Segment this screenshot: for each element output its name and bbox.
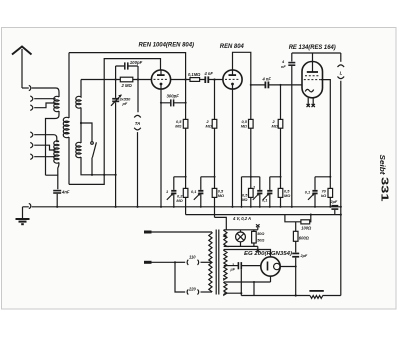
- speaker choke: [309, 291, 323, 299]
- resistor 100 ohm: [285, 215, 311, 224]
- tuning capacitor 3x550pF: [111, 95, 122, 207]
- wire L2 bottom to bracket: [58, 163, 59, 176]
- capacitor 4nF (coupling 1): [205, 76, 208, 83]
- capacitor 1uF: [238, 262, 261, 269]
- antenna terminal connector: [29, 85, 34, 90]
- switch S1: [91, 142, 97, 175]
- svg-text:4 nF: 4 nF: [204, 71, 214, 76]
- antenna: [12, 47, 32, 89]
- resistor 0.5M (group 3 right): [278, 177, 283, 207]
- svg-text:Seibt: Seibt: [378, 155, 387, 175]
- anode row V1: [171, 79, 223, 81]
- svg-text:4nF: 4nF: [61, 190, 70, 195]
- RC group 1: bracket: [174, 177, 186, 190]
- svg-text:REN 804: REN 804: [220, 44, 245, 50]
- svg-text:110: 110: [189, 254, 196, 259]
- top rail (B+ upper): [69, 53, 186, 80]
- capacitor 1nF (group 1): [167, 190, 177, 207]
- junction V2 plate node: [250, 84, 252, 86]
- junction rectifier node: [295, 265, 297, 267]
- resistor 0.5M (V2 load): [249, 85, 254, 177]
- transformer core: [216, 230, 219, 295]
- junction mains: [174, 261, 176, 263]
- RC group 2: bracket: [201, 177, 215, 190]
- wire terminal to coil L1: [34, 88, 59, 97]
- wire TA to ground rail: [137, 132, 139, 207]
- svg-text:EG 200(RGN354): EG 200(RGN354): [244, 251, 292, 257]
- wire tuned circuit bottom: [69, 175, 104, 185]
- svg-text:4 V, 0,2 A: 4 V, 0,2 A: [232, 216, 251, 221]
- dial lamp: [236, 230, 246, 247]
- svg-text:1: 1: [166, 189, 168, 194]
- wire tap A4 to coil L2 top: [34, 135, 59, 142]
- secondary S2 (HT winding): [224, 250, 227, 280]
- wire bracket left block: [46, 175, 58, 189]
- wire S2 centre tap: [224, 265, 238, 267]
- svg-text:0,1MΩ: 0,1MΩ: [188, 72, 201, 77]
- coupling row V2-V3: [251, 84, 302, 86]
- tuned coil L3: [63, 117, 69, 137]
- svg-text:MΩ: MΩ: [284, 193, 290, 198]
- capacitor 0.1nF (group 3): [263, 190, 273, 207]
- label 70k: [321, 189, 327, 199]
- RC group 3 left bracket: [242, 177, 260, 207]
- wire switch branch: [81, 123, 92, 142]
- wire tap A6 to L2: [34, 156, 55, 158]
- voltage tap 110: [175, 260, 212, 265]
- rail B (heater): [186, 207, 341, 215]
- wire antenna to terminal: [22, 87, 29, 89]
- svg-text:MΩ: MΩ: [218, 193, 224, 198]
- rail C 4V: [215, 207, 227, 230]
- tube V2 REN804: [223, 70, 242, 89]
- capacitor 4nF (antenna block): [53, 190, 61, 194]
- secondary S3 (rectifier heater): [224, 282, 227, 295]
- capacitor 0.1nF (group 4): [308, 190, 318, 207]
- svg-text:2 MΩ: 2 MΩ: [121, 83, 133, 88]
- resistor 0.5M (group 2): [212, 188, 217, 206]
- svg-text:331: 331: [379, 177, 390, 202]
- svg-text:MΩ: MΩ: [241, 197, 247, 202]
- resistor 0.5M (group 3): [249, 177, 254, 207]
- tap terminal A6: [30, 154, 33, 160]
- label 0,5M: [175, 119, 182, 129]
- RC group 4 bracket: [315, 177, 330, 190]
- wire S3 top to tube: [224, 276, 271, 282]
- wire tap A3 to L1: [34, 103, 55, 108]
- transformer primary: [209, 232, 212, 292]
- junction grid/tuning: [115, 78, 117, 80]
- tap terminal A2: [30, 96, 33, 102]
- tube V3 RE134: [302, 53, 323, 98]
- junction dots on ground rail: [56, 206, 342, 216]
- heater legs V3: [307, 98, 315, 107]
- ground symbol: [16, 207, 30, 224]
- svg-text:RE 134(RES 164): RE 134(RES 164): [289, 45, 336, 51]
- svg-text:L: L: [340, 70, 343, 75]
- wire tap A5 to L2: [34, 145, 55, 150]
- capacitor 4nF (coupling 2): [265, 82, 268, 89]
- svg-text:50Ω: 50Ω: [257, 239, 264, 243]
- junction grid V2: [213, 78, 215, 80]
- junction: [253, 281, 255, 283]
- label 1uF: [230, 263, 236, 272]
- resistor 2M (V2 grid): [212, 80, 217, 189]
- label 0,5M: [241, 119, 248, 129]
- label 4nF: [281, 59, 286, 69]
- svg-text:0,1: 0,1: [262, 197, 267, 202]
- tap terminal A5: [30, 142, 33, 148]
- svg-text:220: 220: [188, 286, 197, 291]
- wire L3 bottom: [68, 137, 70, 184]
- resistor 50 ohm: [252, 230, 257, 247]
- tube V1 REN1004: [151, 70, 170, 89]
- wire cathode V2 to rail: [232, 89, 234, 207]
- bottom rail: [241, 295, 340, 297]
- svg-text:0,1: 0,1: [305, 189, 310, 194]
- svg-text:0,1: 0,1: [191, 189, 196, 194]
- voltage tap 220: [175, 262, 212, 294]
- svg-text:1: 1: [232, 263, 234, 267]
- capacitor 4nF (output feed): [288, 53, 295, 207]
- label 2M: [206, 119, 212, 129]
- wire tuning cap to grid row: [115, 66, 117, 98]
- tap terminal A3: [30, 105, 33, 111]
- wire anode V2 bracket: [233, 52, 251, 85]
- mains lead 2: [144, 261, 175, 264]
- labels 50 ohm: [257, 232, 264, 242]
- rectifier tube EG200: [261, 257, 280, 276]
- wire tap A2 to L1: [34, 98, 55, 100]
- wire feedback vertical: [104, 59, 160, 175]
- svg-text:MΩ: MΩ: [175, 123, 181, 128]
- ground rail: [34, 206, 341, 208]
- svg-text:REN 1004(REN 804): REN 1004(REN 804): [139, 43, 195, 49]
- label 2M: [272, 119, 278, 129]
- svg-text:100pF: 100pF: [130, 60, 143, 65]
- grid row wire: [81, 79, 152, 81]
- coil L5 (wave range): [76, 142, 81, 157]
- svg-text:MΩ: MΩ: [241, 123, 247, 128]
- svg-text:MΩ: MΩ: [176, 198, 182, 203]
- svg-text:600Ω: 600Ω: [299, 236, 310, 241]
- wire cathode V1 to rail: [160, 89, 162, 207]
- wire S3 to rail: [224, 282, 254, 296]
- label 0,2M: [176, 194, 183, 203]
- resistor 2M (grid leak 1): [120, 77, 133, 82]
- svg-text:2µF: 2µF: [300, 253, 308, 258]
- terminal L: [338, 53, 345, 296]
- wire V3 grid to leak: [321, 80, 331, 177]
- lamp loop top: [224, 227, 258, 230]
- svg-text:4 nF: 4 nF: [262, 77, 272, 82]
- capacitor 0.1nF (group 2): [194, 190, 204, 207]
- svg-text:MΩ: MΩ: [206, 123, 212, 128]
- wire S2 top to rectifier anode: [224, 250, 271, 258]
- secondary S1 (lamp winding): [224, 230, 227, 247]
- wire L5 bottom to bracket: [81, 157, 116, 175]
- mains lead 1: [144, 231, 212, 234]
- capacitor 2uF (PSU): [292, 253, 299, 258]
- wire rectifier output: [280, 258, 296, 296]
- lamp loop bottom: [224, 246, 258, 249]
- wire L4 to L5: [80, 108, 82, 144]
- junction grid/TA: [137, 78, 139, 80]
- terminal TA: [134, 115, 141, 130]
- svg-text:TA: TA: [135, 121, 141, 126]
- wire cap to ground rail: [56, 194, 58, 207]
- label 0,5M: [241, 192, 248, 202]
- wire 1uF return: [240, 269, 242, 295]
- RC group 3 right bracket: [270, 177, 281, 190]
- wire TA vertical upper: [137, 66, 139, 112]
- junction B+: [185, 78, 187, 80]
- resistor 0.2M (group 1): [183, 188, 188, 206]
- resistor 70k (group 4): [328, 177, 333, 207]
- resistor 2M (V3 grid path): [278, 85, 283, 177]
- svg-text:nF: nF: [281, 64, 286, 69]
- arrow lamp winding tap: [223, 234, 227, 238]
- capacitor 2uF (output): [331, 205, 338, 215]
- svg-text:50Ω: 50Ω: [257, 232, 264, 236]
- grid coil L4: [76, 80, 81, 109]
- output rail: [292, 52, 341, 54]
- tap terminal A4: [30, 132, 33, 138]
- junction V3 grid node: [279, 84, 281, 86]
- coil L2 (antenna primary, lower): [54, 141, 59, 163]
- svg-text:kΩ: kΩ: [321, 193, 326, 198]
- junction bottom rail: [295, 294, 297, 296]
- resistor 0.5M (V1 load): [183, 80, 188, 177]
- resistor 0.1M (anode): [190, 78, 200, 82]
- svg-text:µF: µF: [230, 268, 236, 272]
- wire top rail down to tuned coil: [68, 53, 70, 118]
- resistor 600 ohm: [293, 222, 298, 253]
- label 0,5M: [218, 189, 224, 199]
- heater x top: [256, 224, 260, 227]
- svg-text:300pF: 300pF: [167, 94, 180, 99]
- svg-text:MΩ: MΩ: [272, 123, 278, 128]
- capacitor 1nF (group 3): [253, 190, 263, 207]
- svg-text:pF: pF: [122, 101, 128, 106]
- coil L1 (antenna primary, upper): [54, 96, 59, 111]
- wire L1 bottom to left drop: [46, 111, 60, 175]
- heater x bottom: [256, 249, 260, 252]
- ground terminal connector: [23, 203, 35, 208]
- grid capacitor 100pF: [116, 62, 138, 69]
- svg-text:2µF: 2µF: [330, 199, 338, 204]
- label 3x550pF: [120, 96, 132, 106]
- capacitor 300pF (cathode): [161, 99, 186, 106]
- label 0,5M: [284, 189, 290, 199]
- svg-text:100Ω: 100Ω: [301, 225, 312, 230]
- svg-text:1: 1: [253, 185, 255, 190]
